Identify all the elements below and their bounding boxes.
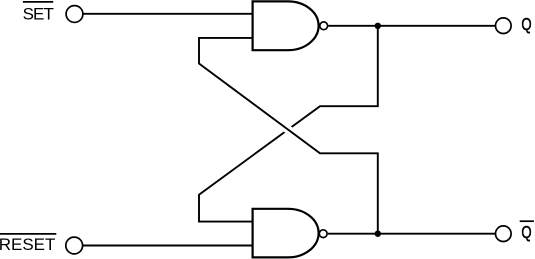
svg-text:RESET: RESET [0,235,55,254]
svg-text:Q: Q [521,223,531,242]
svg-text:Q: Q [521,15,531,34]
svg-text:SET: SET [23,4,54,23]
